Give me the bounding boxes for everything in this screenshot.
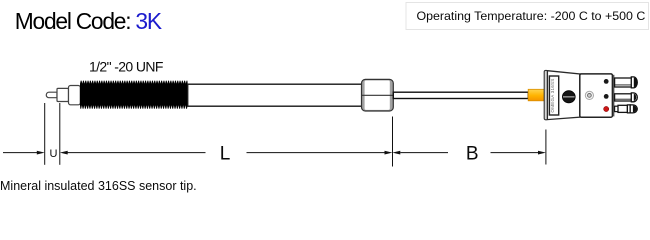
hex nut face [365,81,390,110]
lead wire [393,92,528,98]
svg-text:B: B [466,144,479,165]
svg-text:OMEGA 316SS: OMEGA 316SS [550,78,555,112]
U dimension leader left [3,152,37,154]
B dimension line left segment [400,152,448,154]
indicator dot middle (black) [604,94,609,99]
center screw [585,91,593,99]
pin 1 (top) [615,77,638,88]
connector end cap [544,70,548,119]
cable clamp screw (black oval) [562,91,575,103]
B dimension line right segment [491,152,539,154]
B arrow left [392,151,400,155]
sensor tip pill [46,92,57,98]
L dimension line right segment [247,152,385,154]
L dimension line left segment [67,152,205,154]
tip collar small [57,88,69,101]
svg-text:1/2" -20 UNF: 1/2" -20 UNF [89,59,163,75]
connector head [580,74,613,117]
svg-text:L: L [220,144,231,165]
indicator dot bottom (red) [604,106,609,111]
hex nut body [362,79,394,111]
U arrow right / L left arrow [60,151,68,155]
L extension line [392,117,394,167]
pin 3 (bottom, round) [615,105,638,113]
L arrow right [385,151,393,155]
U extension line right [59,103,61,165]
svg-text:Operating Temperature: -200 C: Operating Temperature: -200 C to +500 C [417,9,646,23]
svg-text:U: U [50,148,58,160]
U extension line left [44,103,46,165]
connector clamp body [547,71,580,120]
B arrow right [538,151,546,155]
tip collar large [69,86,81,105]
indicator dot top (black) [604,79,609,84]
operating temperature box [406,3,649,30]
connector face line [613,75,615,117]
hex nut mid line [362,94,394,96]
svg-text:Mineral insulated 316SS sensor: Mineral insulated 316SS sensor tip. [0,179,197,193]
probe sheath [188,84,362,106]
threaded section 1/2-20 UNF (black) [80,81,188,109]
B extension line [545,130,547,165]
U arrow left [37,151,45,155]
connector label plate [549,76,558,115]
pin 2 (middle) [615,93,638,102]
svg-text:Model Code: 3K: Model Code: 3K [15,8,162,34]
